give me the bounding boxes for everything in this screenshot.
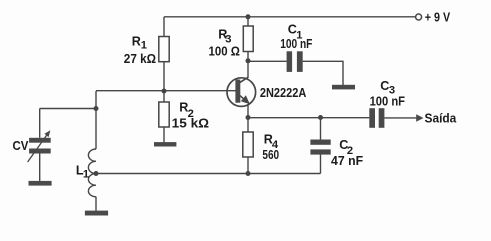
svg-text:560: 560 bbox=[262, 148, 279, 162]
svg-text:27 kΩ: 27 kΩ bbox=[124, 52, 156, 66]
wire emitter vertical bbox=[247, 105, 249, 118]
wire L1 to ground bbox=[95, 197, 97, 211]
svg-text:Saída: Saída bbox=[425, 111, 458, 125]
junction node C2 top bbox=[318, 115, 323, 120]
svg-text:+ 9 V: + 9 V bbox=[425, 11, 451, 25]
wire bottom row (L1 tap to C2) bbox=[96, 173, 321, 175]
junction node R3 top bbox=[246, 14, 251, 19]
resistor R4 bbox=[243, 132, 253, 157]
svg-text:47 nF: 47 nF bbox=[331, 154, 363, 168]
wire CV horizontal bbox=[40, 108, 96, 110]
junction node CV tap bbox=[94, 106, 99, 111]
wire top supply rail bbox=[164, 16, 416, 18]
capacitor C2 plates bbox=[310, 140, 330, 145]
capacitor CV arrow line bbox=[28, 135, 47, 162]
svg-text:1: 1 bbox=[83, 168, 89, 180]
capacitor C1 plates bbox=[287, 51, 293, 72]
junction node R1/R2/base bbox=[162, 89, 167, 94]
terminal +9V open circle bbox=[416, 14, 422, 20]
junction node R4 bottom bbox=[246, 171, 251, 176]
wire R1 top bbox=[163, 17, 165, 37]
svg-text:15 kΩ: 15 kΩ bbox=[172, 117, 209, 131]
ground below R2 bbox=[154, 142, 176, 146]
wire C1 left bbox=[248, 60, 287, 62]
capacitor CV plates bbox=[29, 138, 51, 143]
wire CV bottom vertical bbox=[39, 154, 41, 182]
resistor R2 bbox=[159, 102, 169, 127]
ground below C1 bbox=[332, 85, 355, 90]
transistor emitter arrow bbox=[241, 95, 250, 104]
CV arrow head bbox=[44, 130, 50, 137]
wire C1 right to ground bbox=[303, 61, 343, 85]
ground below L1 bbox=[85, 211, 108, 216]
wire R2 bottom bbox=[163, 127, 165, 142]
junction node L1 tap bbox=[94, 171, 99, 176]
svg-text:R: R bbox=[132, 35, 141, 49]
svg-text:CV: CV bbox=[13, 139, 29, 153]
transistor Q1 circle bbox=[227, 78, 256, 107]
transistor emitter line bbox=[240, 95, 250, 104]
svg-text:100 nF: 100 nF bbox=[280, 37, 312, 51]
transistor collector line bbox=[240, 77, 249, 83]
wire R2 top bbox=[163, 91, 165, 102]
wire collector bbox=[247, 61, 249, 78]
svg-text:100 Ω: 100 Ω bbox=[209, 44, 240, 58]
resistor R3 bbox=[243, 26, 253, 52]
output arrow head bbox=[416, 114, 423, 121]
junction node emitter bbox=[246, 115, 251, 120]
wire C2 top bbox=[320, 118, 322, 140]
wire left vertical (base node to L1) bbox=[95, 91, 97, 149]
resistor R1 bbox=[159, 37, 169, 62]
wire C3 output bbox=[384, 117, 416, 119]
svg-text:2N2222A: 2N2222A bbox=[260, 86, 306, 100]
wire R3 bottom bbox=[247, 52, 249, 62]
ground below CV bbox=[29, 181, 52, 186]
capacitor C3 plates bbox=[369, 108, 375, 128]
inductor L1 coil bbox=[88, 149, 96, 197]
wire emitter row bbox=[248, 117, 369, 119]
svg-text:1: 1 bbox=[141, 39, 147, 51]
wire R4 top bbox=[247, 118, 249, 133]
wire base horizontal bbox=[96, 90, 236, 92]
transistor base bar bbox=[235, 80, 240, 103]
wire R1 bottom to base node bbox=[163, 62, 165, 91]
wire R3 top bbox=[247, 17, 249, 26]
wire R4 bottom bbox=[247, 157, 249, 174]
wire C2 bottom bbox=[320, 155, 322, 174]
junction node R3 bottom bbox=[246, 58, 251, 63]
svg-text:100 nF: 100 nF bbox=[370, 94, 406, 108]
wire CV top vertical bbox=[39, 109, 41, 138]
